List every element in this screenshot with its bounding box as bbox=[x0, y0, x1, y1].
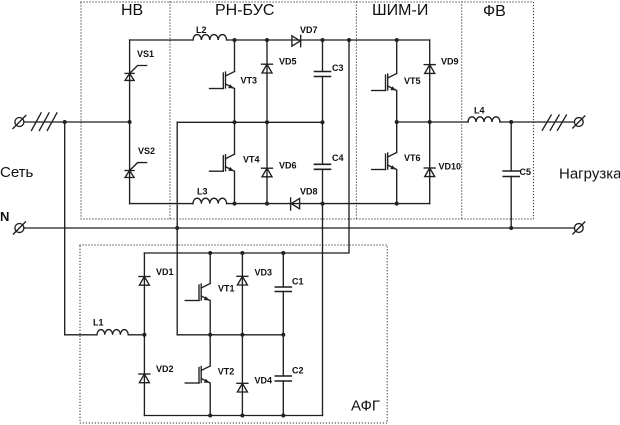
diode VD6 bbox=[262, 122, 273, 203]
svg-text:VT3: VT3 bbox=[241, 76, 258, 86]
svg-text:ШИМ-И: ШИМ-И bbox=[372, 2, 428, 19]
transistor VT6 (IGBT) bbox=[372, 122, 397, 204]
wire: АФГ bottom rail bbox=[144, 415, 322, 417]
node: VT3/VT4 midpoint bbox=[233, 120, 237, 124]
node: VT1 on АФГ top rail bbox=[208, 251, 212, 255]
svg-text:N: N bbox=[0, 209, 9, 224]
node: DC+ drop on top rail bbox=[347, 38, 351, 42]
svg-text:C3: C3 bbox=[332, 63, 344, 73]
diode VD1 bbox=[139, 277, 150, 286]
inductor L1 bbox=[65, 330, 145, 335]
svg-text:VT6: VT6 bbox=[404, 153, 421, 163]
transistor VT4 (IGBT) bbox=[210, 122, 235, 203]
node: C5 tap bbox=[509, 120, 513, 124]
svg-text:ФВ: ФВ bbox=[483, 3, 506, 20]
node: phase to НВ junction bbox=[128, 120, 132, 124]
wire: АФГ rectifier leg VD1/VD2 column bbox=[143, 253, 145, 416]
wire: top DC bus (boost input rail) bbox=[130, 39, 193, 41]
svg-text:L4: L4 bbox=[474, 106, 485, 116]
svg-text:VS1: VS1 bbox=[137, 49, 154, 59]
svg-text:L2: L2 bbox=[196, 25, 207, 35]
block divider ШИМ-И | ФВ bbox=[461, 2, 463, 219]
wire: bottom DC- rail bbox=[130, 203, 193, 205]
thyristor VS1 bbox=[125, 66, 147, 81]
node: VD9/VD10 midpoint bbox=[428, 120, 432, 124]
svg-text:C4: C4 bbox=[332, 153, 344, 163]
node: VT5/VT6 midpoint bbox=[395, 120, 399, 124]
node: VT2 on bottom rail bbox=[208, 414, 212, 418]
wire: DC+ drop to АФГ top rail bbox=[144, 40, 349, 253]
terminal: mains phase input bbox=[13, 116, 26, 129]
wire: inverter output to L4 bbox=[397, 121, 468, 123]
inductor L2 bbox=[193, 35, 227, 40]
node: VD3/VD4 midpoint bbox=[240, 333, 244, 337]
node: C2 on bottom rail bbox=[281, 414, 285, 418]
svg-text:VD8: VD8 bbox=[300, 187, 318, 197]
diode VD3 bbox=[237, 276, 248, 285]
node: neutral to C5 bbox=[509, 226, 513, 230]
svg-text:L1: L1 bbox=[93, 318, 104, 328]
block divider НВ | РН-БУС bbox=[169, 2, 171, 219]
svg-text:Сеть: Сеть bbox=[0, 164, 34, 181]
diode VD9 bbox=[424, 65, 435, 74]
diode VD2 bbox=[139, 374, 150, 383]
wire: bottom rail continues bbox=[227, 203, 430, 205]
node: C1/C2 midpoint bbox=[281, 333, 285, 337]
diode VD7 bbox=[292, 35, 301, 46]
node: C3/C4 midpoint bbox=[321, 120, 325, 124]
node: VT5 collector on top rail bbox=[395, 38, 399, 42]
svg-text:VT1: VT1 bbox=[218, 284, 235, 294]
capacitor C1 bbox=[275, 253, 291, 335]
wire: DC- drop to АФГ bottom rail bbox=[322, 204, 324, 416]
node: VD4 on bottom rail bbox=[240, 414, 244, 418]
diode VD10 bbox=[424, 168, 435, 177]
wire: neutral bus N bbox=[24, 227, 575, 229]
svg-text:VD10: VD10 bbox=[439, 162, 462, 172]
capacitor C2 bbox=[275, 335, 291, 416]
capacitor C4 bbox=[315, 122, 331, 203]
transistor VT2 (IGBT) bbox=[185, 335, 210, 416]
svg-text:Нагрузка: Нагрузка bbox=[559, 166, 620, 183]
svg-text:VD1: VD1 bbox=[156, 267, 174, 277]
three-phase slash marks (right) bbox=[542, 115, 566, 130]
node: phase branch junction bbox=[63, 120, 67, 124]
transistor VT5 (IGBT) bbox=[372, 40, 397, 122]
block divider РН-БУС | ШИМ-И bbox=[355, 2, 357, 219]
node: VD3 on АФГ top rail bbox=[240, 251, 244, 255]
wire: РН-БУС midpoint rail bbox=[177, 121, 322, 123]
wire: АФГ midpoint rail bbox=[177, 334, 283, 336]
svg-text:VD9: VD9 bbox=[441, 57, 459, 67]
diode VD5 bbox=[262, 40, 273, 122]
node: VT4 emitter on bottom rail bbox=[233, 202, 237, 206]
capacitor C3 bbox=[315, 40, 331, 122]
inductor L4 bbox=[468, 117, 500, 122]
svg-text:VD5: VD5 bbox=[279, 57, 297, 67]
node: L1 to rectifier leg midpoint bbox=[142, 333, 146, 337]
svg-text:L3: L3 bbox=[197, 187, 208, 197]
wire: VD9/VD10 column bbox=[429, 40, 431, 204]
capacitor C5 bbox=[503, 122, 519, 228]
node: neutral to midpoint column bbox=[175, 226, 179, 230]
node: VD6 on bottom rail bbox=[265, 202, 269, 206]
svg-text:VD2: VD2 bbox=[156, 364, 174, 374]
svg-text:C1: C1 bbox=[292, 277, 304, 287]
wire: L4 to load terminal bbox=[500, 121, 574, 123]
svg-text:VT4: VT4 bbox=[243, 155, 260, 165]
node: VT3 collector on top rail bbox=[233, 38, 237, 42]
transistor VT1 (IGBT) bbox=[185, 253, 210, 335]
node: VT1/VT2 midpoint bbox=[208, 333, 212, 337]
node: C1 on АФГ top rail bbox=[281, 251, 285, 255]
svg-text:VD3: VD3 bbox=[255, 268, 273, 278]
wire: НВ thyristor column bbox=[129, 40, 131, 204]
svg-text:НВ: НВ bbox=[121, 2, 143, 19]
wire: phase drop down to L1 bbox=[64, 122, 66, 335]
svg-text:VS2: VS2 bbox=[138, 146, 155, 156]
block АФГ boundary (dotted frame of bottom section) bbox=[80, 245, 387, 423]
inductor L3 bbox=[193, 198, 227, 203]
node: VT6 emitter on bottom rail bbox=[395, 202, 399, 206]
block НВ boundary (outer dotted frame of top section) bbox=[81, 2, 534, 219]
wire: midpoint drop to neutral bbox=[176, 122, 178, 334]
diode VD8 bbox=[291, 198, 300, 210]
svg-text:VD4: VD4 bbox=[255, 376, 273, 386]
node: C4 / DC- drop on bottom rail bbox=[321, 202, 325, 206]
node: VD5/VD6 midpoint bbox=[265, 120, 269, 124]
svg-text:АФГ: АФГ bbox=[351, 398, 380, 415]
wire: top rail continues bbox=[227, 39, 430, 41]
wire: VD3/VD4 column bbox=[241, 253, 243, 416]
terminal: neutral input bbox=[13, 222, 25, 234]
thyristor VS2 bbox=[125, 163, 147, 178]
three-phase slash marks (left) bbox=[32, 113, 57, 130]
svg-text:VT2: VT2 bbox=[218, 367, 235, 377]
svg-text:VT5: VT5 bbox=[404, 76, 421, 86]
transistor VT3 (IGBT) bbox=[210, 40, 235, 122]
terminal: neutral output bbox=[573, 222, 585, 234]
svg-text:РН-БУС: РН-БУС bbox=[215, 2, 274, 19]
node: C3 on top rail bbox=[321, 38, 325, 42]
svg-text:VD7: VD7 bbox=[300, 25, 318, 35]
diode VD4 bbox=[237, 383, 248, 392]
svg-text:C5: C5 bbox=[520, 167, 532, 177]
svg-text:VD6: VD6 bbox=[279, 161, 297, 171]
node: VD5 on top rail bbox=[265, 38, 269, 42]
terminal: load phase output bbox=[573, 116, 585, 128]
wire: phase input to НВ bbox=[24, 121, 129, 123]
svg-text:C2: C2 bbox=[292, 366, 304, 376]
